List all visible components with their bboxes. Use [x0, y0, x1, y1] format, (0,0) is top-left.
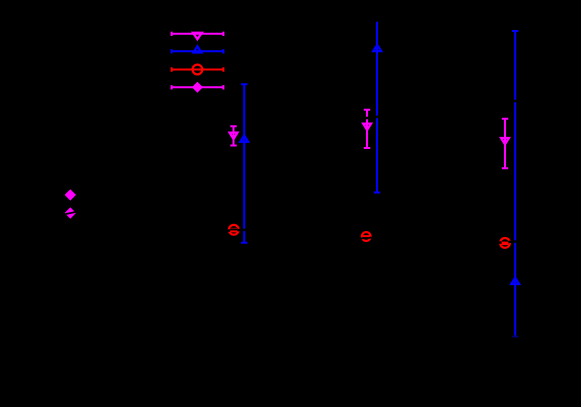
legend entry 1 marker: open down-triangle [193, 33, 202, 39]
legend entry 3: red errorbar line [171, 67, 224, 71]
cluster 2: black crossing line [362, 116, 382, 118]
cluster 1: magenta errorbar [230, 126, 236, 145]
cluster 3: black crossing line upper [510, 100, 521, 101]
legend entry 1: magenta errorbar line [171, 32, 224, 36]
cluster 3: red open circle marker [500, 238, 510, 248]
cluster 1: blue errorbar [241, 84, 247, 243]
cluster 1: dark red upper line inside circle [230, 228, 238, 230]
left data point: magenta filled diamond 2 [65, 207, 76, 218]
left data point: magenta filled diamond 1 [65, 189, 76, 200]
legend entry 2 marker: open up-triangle [194, 46, 202, 52]
cluster 3: magenta open down-triangle marker [501, 138, 509, 144]
cluster 3: dim blue bottom cap [512, 336, 518, 338]
cluster 3: bright red cap bar inside circle [502, 242, 509, 246]
cluster 1: bright red cap bar inside circle [230, 230, 237, 232]
cluster 2: magenta open down-triangle marker [363, 124, 371, 130]
cluster 3: magenta errorbar [502, 119, 508, 168]
cluster 2: red open circle marker [362, 232, 371, 241]
cluster 3: blue errorbar [512, 31, 518, 336]
black slash over diamond 2 [64, 212, 78, 215]
cluster 1: magenta open down-triangle marker [230, 133, 238, 139]
cluster 2: black crossing line at circle [360, 237, 374, 238]
cluster 2: blue open up-triangle marker [373, 45, 381, 51]
cluster 2: blue errorbar (top clipped, no top cap) [374, 22, 380, 193]
legend entry 4: magenta errorbar line [171, 85, 224, 89]
legend entry 4 marker: filled diamond [192, 82, 203, 93]
cluster 3: black crossing line at circle [497, 241, 520, 243]
cluster 3: blue open up-triangle marker [511, 278, 519, 284]
cluster 1: blue open up-triangle marker [240, 136, 248, 142]
cluster 2: bright red cap bar inside circle [363, 235, 370, 237]
cluster 2: magenta errorbar [364, 110, 370, 148]
cluster 1: red open circle marker [229, 225, 239, 235]
legend entry 2: blue errorbar line [171, 49, 224, 53]
cluster 1: black crossing line [226, 230, 250, 231]
legend entry 3 marker: open circle [193, 65, 203, 75]
